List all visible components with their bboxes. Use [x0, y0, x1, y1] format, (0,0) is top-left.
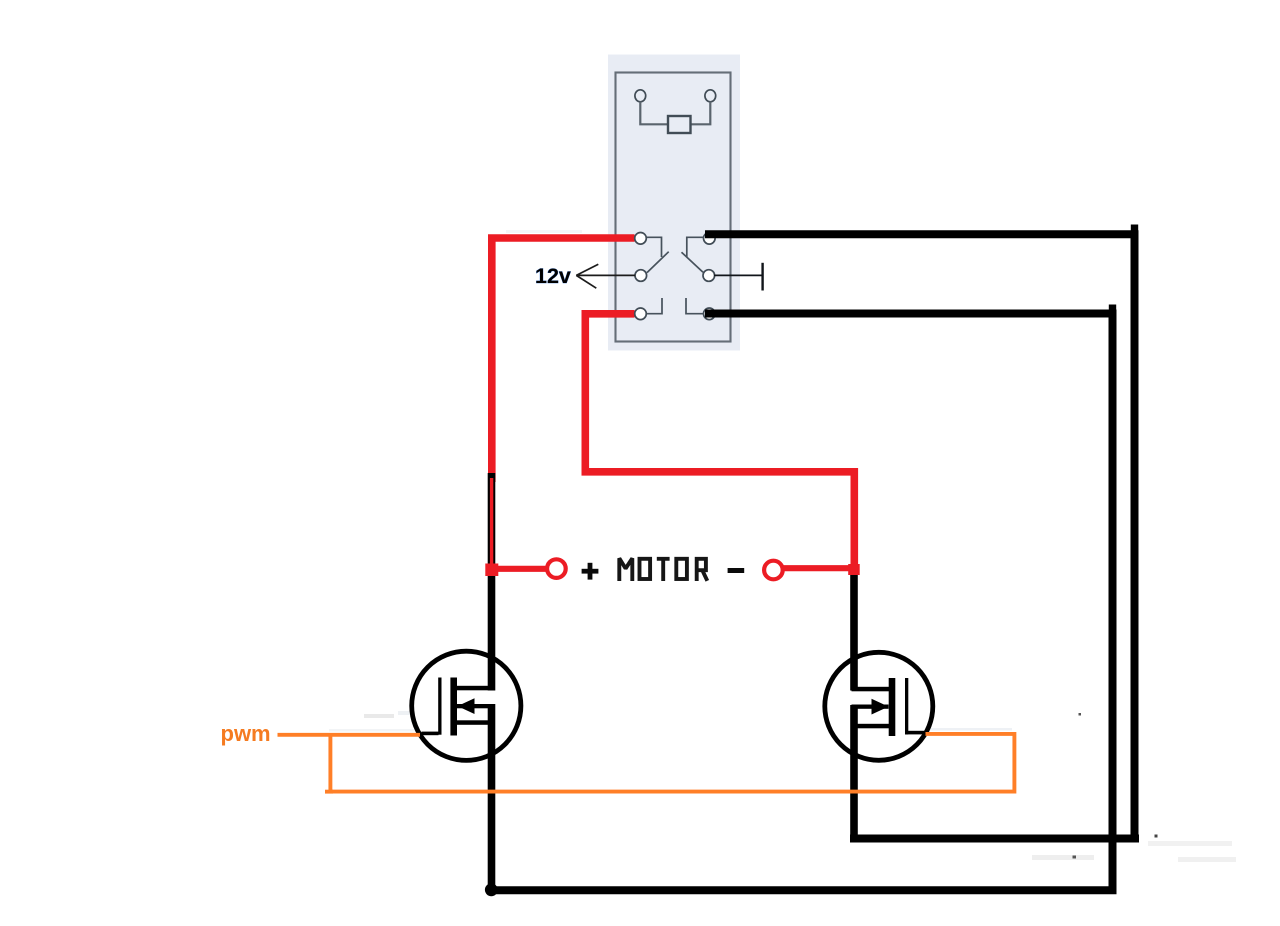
Q1 gate lead [422, 732, 439, 736]
mosfet Q2 (right) [825, 652, 933, 760]
Q1 body stub + arrow [457, 704, 495, 708]
relay pin circles [635, 233, 715, 320]
orange corner nub [325, 790, 333, 794]
red wire relay pin3 to right drain node [585, 314, 854, 566]
label MOTOR [619, 558, 707, 581]
minus sign [728, 568, 745, 573]
Q1 drain stub [456, 686, 495, 691]
red lead from - terminal [783, 565, 852, 571]
wire right source vertical [850, 705, 858, 839]
Q2 body stub + arrow [852, 705, 889, 709]
relay K1 body [608, 55, 740, 351]
Q2 drain stub [852, 687, 890, 692]
wire right drain vertical [850, 571, 858, 691]
wire black left drain vertical [488, 473, 496, 691]
red wire relay pin1 to left drain node [492, 238, 635, 482]
Q2 gate bar [905, 678, 908, 735]
Q1 channel bar [450, 678, 457, 736]
node + MOTOR - junction left [485, 564, 498, 577]
relay contact leads [647, 237, 705, 313]
erase-mark smudges [329, 230, 1236, 862]
svg-text:pwm: pwm [221, 721, 271, 746]
black wire relay pin4 to right source [705, 234, 1135, 838]
orange pwm wire to Q1 gate [278, 733, 421, 737]
junction right [848, 564, 860, 575]
wire left source vertical [488, 704, 496, 890]
motor - terminal ring [764, 561, 783, 580]
mosfet Q1 (left) [412, 651, 521, 760]
motor + terminal ring [547, 559, 566, 578]
pin5 lead and terminator bar [714, 263, 763, 291]
Q2 channel bar [889, 678, 896, 736]
relay coil [635, 90, 716, 133]
Q1 source stub [456, 720, 495, 725]
plus sign [582, 569, 599, 574]
12v arrow to pin2 [576, 264, 635, 288]
black wire relay pin6 to left source [494, 314, 1113, 891]
Q2 source stub [852, 724, 890, 729]
junction dot bottom-left [485, 883, 498, 896]
Q2 gate lead [907, 731, 926, 735]
orange pwm wire loop to Q2 gate [330, 734, 1014, 792]
red lead to + terminal [490, 566, 548, 572]
Q1 gate bar [438, 678, 441, 735]
red overlay thin on drain wire [490, 478, 493, 565]
svg-text:12v: 12v [535, 264, 571, 288]
